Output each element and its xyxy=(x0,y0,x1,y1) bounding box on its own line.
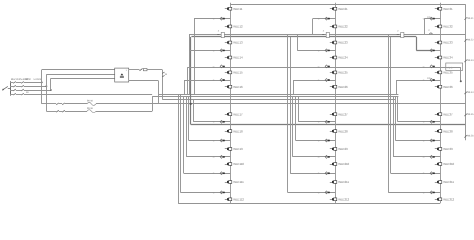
breaker QF1-8 circuit WLE18 xyxy=(225,129,243,133)
svg-text:WLE15: WLE15 xyxy=(233,71,243,75)
svg-text:WLE24: WLE24 xyxy=(338,56,348,60)
service wire L3 xyxy=(10,89,51,91)
svg-text:WLE23: WLE23 xyxy=(338,41,348,45)
breaker QF3-4 circuit WLE34 xyxy=(435,56,453,60)
right edge riser WLE xyxy=(465,5,467,141)
feeder sectioning box CB3 xyxy=(397,29,404,37)
meter output neutral line xyxy=(129,80,159,82)
svg-text:WLE21: WLE21 xyxy=(338,7,348,11)
feed connector f192 at bus WB2 xyxy=(325,191,330,194)
meter feed line C xyxy=(51,78,115,80)
svg-text:BV-16: BV-16 xyxy=(87,100,93,103)
svg-text:WLE39: WLE39 xyxy=(443,147,453,151)
riser tap label WLE6 xyxy=(464,135,474,138)
breaker QF3-5 circuit WLE35 xyxy=(435,71,453,75)
svg-text:WLE34: WLE34 xyxy=(443,56,453,60)
bundle line 1 xyxy=(158,94,398,96)
feed line col3 y140 xyxy=(395,97,440,142)
feed connector f140 at bus WB2 xyxy=(325,139,330,142)
PE wire riser up xyxy=(152,97,154,111)
riser tap label WLE2 xyxy=(464,39,474,42)
svg-text:WLE4: WLE4 xyxy=(467,91,474,94)
feed line col2 y18 xyxy=(313,18,336,35)
svg-text:WLE111: WLE111 xyxy=(233,180,244,184)
breaker QF2-5 circuit WLE25 xyxy=(330,71,348,75)
node wire1/riser1 xyxy=(41,82,43,84)
feed connector f173 at bus WB3 xyxy=(430,172,435,175)
meter output drop phase xyxy=(162,70,164,100)
feed line col1 y156 xyxy=(187,97,231,159)
svg-text:WLE33: WLE33 xyxy=(443,41,453,45)
feed line col2 y80 xyxy=(294,79,336,95)
outgoing feeder label WM xyxy=(162,72,168,77)
feed line col2 y173 xyxy=(290,37,335,175)
breaker QF3-6 circuit WLE36 xyxy=(435,85,453,89)
breaker QF1-12 circuit WLE112 xyxy=(225,197,245,201)
feed connector f66 at bus WB1 xyxy=(220,65,225,68)
feed line col2 y192 xyxy=(288,34,336,194)
svg-text:WLE14: WLE14 xyxy=(233,56,243,60)
svg-text:WLE17: WLE17 xyxy=(233,112,243,116)
svg-text:WLE210: WLE210 xyxy=(338,162,349,166)
breaker QF3-11 circuit WLE311 xyxy=(435,180,455,184)
svg-text:WLE6: WLE6 xyxy=(467,135,474,138)
feed line col2 y121 xyxy=(298,97,335,124)
tap stub col3 xyxy=(440,67,462,82)
breaker QF3-1 circuit WLE31 xyxy=(435,7,453,11)
feeder tap tick col3 xyxy=(428,29,432,34)
feed line col1 y140 xyxy=(189,97,231,142)
feed line col3 y121 xyxy=(398,97,441,124)
feed line col1 y18 xyxy=(194,18,230,95)
breaker QF1-10 circuit WLE110 xyxy=(225,162,245,166)
feed connector f140 at bus WB1 xyxy=(220,139,225,142)
svg-text:WLE1: WLE1 xyxy=(467,17,474,20)
svg-text:WLE11: WLE11 xyxy=(233,7,242,11)
distribution box label AL xyxy=(446,63,463,70)
feed line col1 y50 xyxy=(189,34,230,52)
feed connector f121 at bus WB2 xyxy=(325,120,330,123)
breaker QF1-4 circuit WLE14 xyxy=(225,56,243,60)
PE wire run xyxy=(46,110,152,113)
feeder sectioning box CB1 xyxy=(217,29,224,37)
svg-text:WLE312: WLE312 xyxy=(443,197,454,201)
svg-text:BV-16: BV-16 xyxy=(87,107,93,110)
breaker QF1-6 circuit WLE16 xyxy=(225,85,243,89)
svg-text:WLE211: WLE211 xyxy=(338,180,349,184)
main switch QF0 xyxy=(140,68,163,70)
meter output phase line xyxy=(129,69,140,71)
feed connector f66 at bus WB3 xyxy=(430,65,435,68)
svg-text:WLE112: WLE112 xyxy=(233,197,244,201)
feed connector f192 at bus WB1 xyxy=(220,191,225,194)
feed connector f173 at bus WB2 xyxy=(325,172,330,175)
feed line col2 y140 xyxy=(296,97,336,142)
meter feed line A xyxy=(42,69,115,71)
feed connector f18 at bus WB1 xyxy=(220,17,225,20)
svg-text:WLE212: WLE212 xyxy=(338,197,349,201)
feed line col3 y192 xyxy=(388,34,440,194)
svg-text:WLE12: WLE12 xyxy=(233,25,243,29)
meter output drop neutral xyxy=(158,81,160,95)
feed connector f18 at bus WB2 xyxy=(325,17,330,20)
node feeder B / neutral xyxy=(190,103,192,105)
svg-text:WLE38: WLE38 xyxy=(443,129,453,133)
svg-text:WLE31: WLE31 xyxy=(443,7,453,11)
riser tap label WLE1 xyxy=(464,17,474,20)
breaker QF1-5 circuit WLE15 xyxy=(225,71,243,75)
feed connector f50 at bus WB3 xyxy=(430,49,435,52)
entrance terminal bar xyxy=(10,81,12,95)
bundle line 3 xyxy=(162,99,395,101)
feed connector f140 at bus WB3 xyxy=(430,139,435,142)
breaker QF1-7 circuit WLE17 xyxy=(225,112,243,116)
riser to meter phase A xyxy=(41,70,43,104)
node wire2/riser2 xyxy=(46,85,48,87)
feed connector f80 at bus WB1 xyxy=(220,79,225,82)
feeder line A xyxy=(189,34,465,95)
breaker QF2-6 circuit WLE26 xyxy=(330,85,348,89)
feed line col1 y121 xyxy=(193,99,230,124)
riser to meter phase C xyxy=(50,78,52,90)
breaker QF2-1 circuit WLE21 xyxy=(330,7,348,11)
node wire3/riser3 xyxy=(50,89,52,91)
top outgoing circuit line xyxy=(230,4,465,6)
neutral wire N run xyxy=(42,102,466,105)
svg-text:WLE36: WLE36 xyxy=(443,85,453,89)
feed connector f157 at bus WB2 xyxy=(325,155,330,158)
svg-text:WLE29: WLE29 xyxy=(338,147,348,151)
service wire L4 xyxy=(10,93,152,95)
svg-text:WLE26: WLE26 xyxy=(338,85,348,89)
breaker QF3-7 circuit WLE37 xyxy=(435,112,453,116)
breaker QF2-9 circuit WLE29 xyxy=(330,147,348,151)
svg-text:WLE13: WLE13 xyxy=(233,41,243,45)
busbar WB1 xyxy=(230,3,232,203)
feed connector f50 at bus WB2 xyxy=(325,49,330,52)
breaker QF2-8 circuit WLE28 xyxy=(330,129,348,133)
feed line col1 y173 xyxy=(184,97,231,175)
breaker QF2-4 circuit WLE24 xyxy=(330,56,348,60)
kWh meter M1 box xyxy=(115,68,129,82)
svg-text:WLE28: WLE28 xyxy=(338,129,348,133)
feed connector f18 at bus WB3 xyxy=(430,17,435,20)
feed line col2 y50 xyxy=(297,34,335,52)
feed line col3 y80 xyxy=(396,79,440,95)
breaker QF3-2 circuit WLE32 xyxy=(435,25,453,29)
feed connector f121 at bus WB1 xyxy=(220,120,225,123)
breaker QF1-11 circuit WLE111 xyxy=(225,180,244,184)
svg-text:WLE27: WLE27 xyxy=(338,112,348,116)
breaker QF2-10 circuit WLE210 xyxy=(330,162,350,166)
svg-text:WLE25: WLE25 xyxy=(338,71,348,75)
shared feed line y203 xyxy=(178,95,440,204)
breaker QF3-8 circuit WLE38 xyxy=(435,129,453,133)
breaker QF2-3 circuit WLE23 xyxy=(330,41,348,45)
meter feed line B xyxy=(46,74,114,76)
feed connector f66 at bus WB2 xyxy=(325,65,330,68)
shared feed line y124 thick xyxy=(191,124,466,126)
svg-text:WLE19: WLE19 xyxy=(233,147,243,151)
feed line col3 y173 xyxy=(391,37,441,175)
feed line col1 y80 xyxy=(184,79,230,95)
svg-text:WLE5: WLE5 xyxy=(467,113,474,116)
breaker QF2-7 circuit WLE27 xyxy=(330,112,348,116)
shared feed line y66 xyxy=(187,67,440,94)
feeder B step down to col3 xyxy=(416,37,433,51)
svg-text:WLE2: WLE2 xyxy=(467,39,474,42)
feed line col1 y192 xyxy=(180,95,230,195)
breaker QF1-9 circuit WLE19 xyxy=(225,147,243,151)
breaker QF2-2 circuit WLE22 xyxy=(330,25,348,29)
svg-text:WLE3: WLE3 xyxy=(467,59,474,62)
breaker QF3-3 circuit WLE33 xyxy=(435,41,453,45)
svg-text:WLE310: WLE310 xyxy=(443,162,454,166)
feed line col3 y50 xyxy=(433,50,440,52)
svg-text:L=15m: L=15m xyxy=(34,78,41,81)
feeder line B xyxy=(191,37,417,125)
busbar WB2 xyxy=(335,3,337,203)
breaker QF3-12 circuit WLE312 xyxy=(435,197,455,201)
riser to meter phase B xyxy=(46,74,48,111)
busbar WB3 xyxy=(440,3,442,203)
feed line col3 y18 xyxy=(423,18,441,35)
riser tap label WLE5 xyxy=(464,113,474,116)
breaker QF3-9 circuit WLE39 xyxy=(435,147,453,151)
feed connector f80 at bus WB3 xyxy=(430,79,435,82)
riser tap label WLE4 xyxy=(464,91,474,94)
breaker QF3-10 circuit WLE310 xyxy=(435,162,455,166)
bundle line 1 left hook xyxy=(158,95,160,104)
service entrance arrow xyxy=(2,86,8,90)
service wire L1 xyxy=(10,82,42,84)
feed line col2 y156 xyxy=(293,97,336,159)
svg-text:WLE35: WLE35 xyxy=(443,71,453,75)
svg-text:WLE22: WLE22 xyxy=(338,25,348,29)
feed connector f157 at bus WB3 xyxy=(430,155,435,158)
feed connector f50 at bus WB1 xyxy=(220,49,225,52)
svg-text:SC50: SC50 xyxy=(25,78,32,81)
feed connector f121 at bus WB3 xyxy=(430,120,435,123)
service wire L2 xyxy=(10,85,46,87)
breaker QF2-12 circuit WLE212 xyxy=(330,197,350,201)
feed line col3 y156 xyxy=(393,97,440,159)
feed connector f157 at bus WB1 xyxy=(220,155,225,158)
svg-text:WLE37: WLE37 xyxy=(443,112,453,116)
svg-text:WLE16: WLE16 xyxy=(233,85,243,89)
riser tap label WLE3 xyxy=(464,59,474,62)
svg-text:WLE110: WLE110 xyxy=(233,162,244,166)
feeder sectioning box CB2 xyxy=(322,29,329,37)
feed connector f173 at bus WB1 xyxy=(220,172,225,175)
breaker QF2-11 circuit WLE211 xyxy=(330,180,350,184)
meter M1 symbol xyxy=(120,73,124,77)
breaker QF1-3 circuit WLE13 xyxy=(225,41,243,45)
svg-text:WLE311: WLE311 xyxy=(443,180,454,184)
breaker QF1-1 circuit WLE11 xyxy=(225,7,243,11)
bundle line 2 xyxy=(152,96,398,98)
breaker QF1-2 circuit WLE12 xyxy=(225,25,243,29)
feed connector f80 at bus WB2 xyxy=(325,79,330,82)
svg-text:WLE18: WLE18 xyxy=(233,129,243,133)
feed connector f192 at bus WB3 xyxy=(430,191,435,194)
svg-text:WLE32: WLE32 xyxy=(443,25,453,29)
